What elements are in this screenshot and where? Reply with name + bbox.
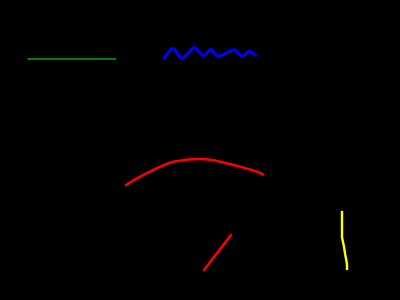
green line [28,58,117,60]
red curve [126,159,263,185]
blue wavy line [164,47,256,58]
yellow line [342,211,347,270]
red line segment [204,235,231,270]
